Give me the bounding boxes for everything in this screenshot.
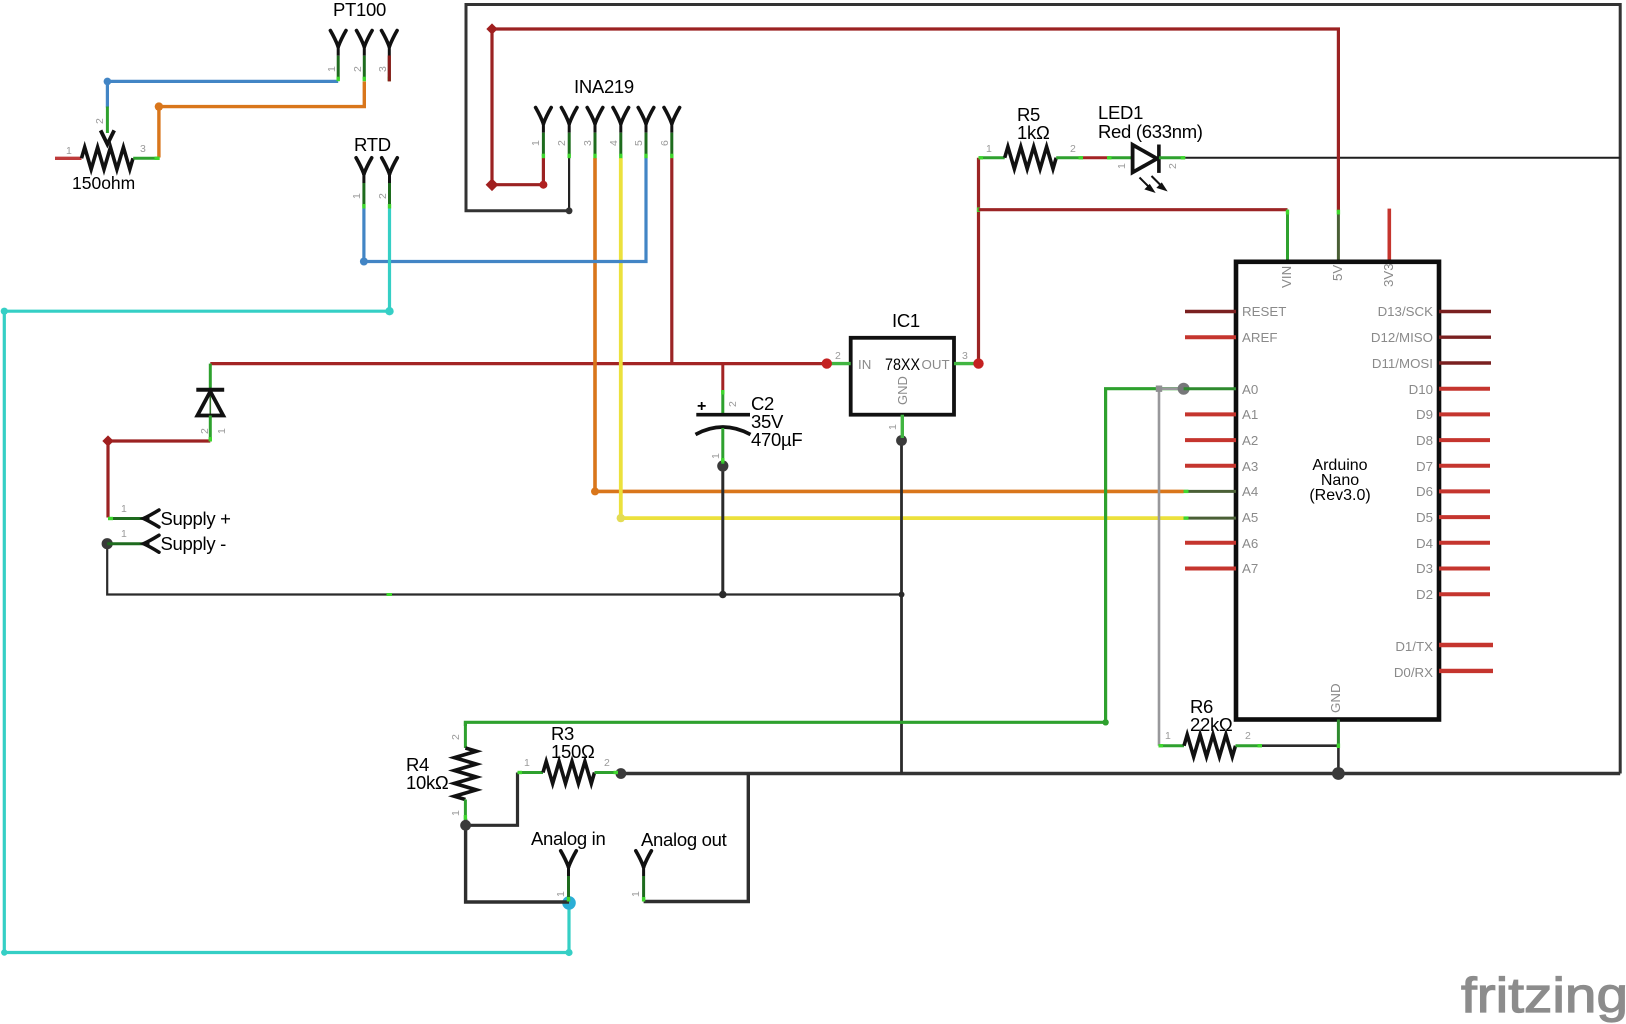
svg-text:D10: D10 — [1409, 382, 1433, 397]
junction dot at R4 pin1 — [460, 820, 471, 831]
A3 stub — [1185, 464, 1236, 468]
wire: red rail from diode cathode to IC1 IN — [210, 362, 827, 365]
svg-text:1: 1 — [1116, 163, 1128, 169]
svg-text:D5: D5 — [1416, 510, 1433, 525]
A7 stub — [1185, 567, 1236, 571]
wire: green long net R4 pin2 to A0 — [465, 389, 1183, 726]
svg-text:1: 1 — [986, 143, 992, 155]
junction dot orange at pot corner — [155, 102, 163, 110]
junction dot cyan below Analog in — [565, 949, 572, 956]
svg-text:1: 1 — [1165, 730, 1171, 742]
junction at INA pin2 wire corner — [566, 207, 573, 214]
capacitor C2 — [696, 390, 803, 464]
svg-text:2: 2 — [835, 350, 841, 362]
wire: bottom ground bus from R3 pin2 to right frame — [621, 772, 1620, 776]
wire: black from R3 pin1 to R4 pin1 — [466, 773, 518, 826]
svg-text:GND: GND — [1328, 683, 1343, 713]
A4 stub — [1184, 490, 1236, 493]
RESET stub — [1185, 310, 1236, 313]
3V3 stub red — [1388, 209, 1392, 262]
svg-text:1: 1 — [524, 757, 530, 769]
wire: black from Analog out up to ground bus — [644, 774, 749, 902]
wire: red from IC1 OUT up to R5 pin1 — [977, 158, 980, 364]
svg-text:1: 1 — [121, 528, 127, 540]
svg-text:3: 3 — [377, 66, 389, 72]
wire: INA219 pin6 dark red drop to IC1 IN rail — [670, 158, 673, 364]
svg-text:INA219: INA219 — [574, 76, 634, 97]
wire: black from R6 pin2 to Arduino GND drop — [1262, 746, 1338, 774]
svg-text:OUT: OUT — [922, 357, 950, 372]
svg-text:D7: D7 — [1416, 459, 1433, 474]
resistor R4 10k — [406, 722, 476, 820]
junction dot IC1 GND pin — [896, 435, 907, 446]
svg-text:2: 2 — [604, 757, 610, 769]
5V stub — [1337, 211, 1340, 262]
svg-text:150ohm: 150ohm — [72, 173, 135, 193]
svg-text:AREF: AREF — [1242, 330, 1277, 345]
svg-text:3V3: 3V3 — [1381, 263, 1396, 287]
svg-text:5V: 5V — [1330, 265, 1345, 281]
connector Analog out — [630, 829, 727, 902]
green tick on supply bus — [387, 593, 393, 596]
svg-text:A6: A6 — [1242, 536, 1258, 551]
svg-text:2: 2 — [1070, 143, 1076, 155]
Arduino Nano module — [1236, 209, 1439, 748]
svg-text:1: 1 — [530, 140, 542, 146]
connector Supply + — [108, 503, 231, 529]
wire: red from OUT riser to Arduino VIN — [979, 208, 1288, 211]
svg-text:D13/SCK: D13/SCK — [1378, 304, 1434, 319]
svg-text:+: + — [697, 398, 706, 415]
junction dot grey square on A0 line — [1156, 386, 1162, 392]
svg-text:3: 3 — [962, 350, 968, 362]
A6 stub — [1185, 541, 1236, 545]
svg-text:2: 2 — [377, 193, 389, 199]
junction dot at R3 pin2 on bus — [616, 768, 627, 779]
wire: cyan from RTD pin2 around left edge to Analog in — [4, 209, 569, 953]
potentiometer 150ohm — [55, 107, 160, 194]
svg-text:A3: A3 — [1242, 459, 1258, 474]
svg-text:LED1: LED1 — [1098, 102, 1143, 123]
junction dot C2 pin1 — [717, 460, 728, 471]
svg-text:2: 2 — [352, 66, 364, 72]
junction dot red at IC1 OUT — [973, 358, 983, 368]
junction dot cyan left edge top — [1, 308, 8, 315]
svg-text:PT100: PT100 — [333, 0, 386, 20]
svg-text:1: 1 — [66, 145, 72, 157]
green tick at OUT riser tee — [977, 208, 980, 213]
svg-text:IN: IN — [858, 357, 871, 372]
svg-text:A1: A1 — [1242, 407, 1258, 422]
junction dot green corner — [1102, 719, 1108, 725]
wire: orange from 150ohm pin3 to PT100 pin2 — [159, 81, 364, 157]
svg-text:GND: GND — [895, 376, 910, 405]
junction dot red at INA pin1 corner — [539, 181, 547, 189]
svg-text:2: 2 — [199, 428, 211, 434]
wire: red between R5 and LED1 — [1083, 156, 1107, 159]
svg-text:Red (633nm): Red (633nm) — [1098, 121, 1203, 142]
svg-text:D8: D8 — [1416, 433, 1433, 448]
wire: black outer frame from INA219 pin2 up, across top, down right side — [466, 5, 1620, 774]
svg-text:IC1: IC1 — [892, 310, 920, 331]
svg-text:Analog in: Analog in — [531, 828, 605, 849]
AREF stub — [1185, 335, 1236, 339]
svg-text:A2: A2 — [1242, 433, 1258, 448]
svg-text:D12/MISO: D12/MISO — [1371, 330, 1433, 345]
svg-text:3: 3 — [140, 143, 146, 155]
connector Analog in — [531, 828, 605, 902]
resistor R3 150ohm — [518, 723, 619, 784]
svg-text:A0: A0 — [1242, 382, 1258, 397]
wire: blue from pot wiper to PT100 pin1 — [107, 81, 338, 107]
A0 stub — [1184, 387, 1236, 390]
svg-text:3: 3 — [582, 140, 594, 146]
svg-text:1: 1 — [351, 193, 363, 199]
resistor R5 1k — [979, 104, 1084, 169]
wire: INA219 pin3 orange down and right to Arduino A4 — [595, 158, 1184, 491]
junction dot red at (492,184.7) — [486, 178, 499, 191]
svg-text:2: 2 — [1167, 163, 1179, 169]
wire: blue from RTD pin1 to INA219 pin5 — [364, 158, 646, 262]
connector INA219 — [530, 76, 680, 158]
Arduino right pin stubs — [1439, 312, 1493, 671]
voltage regulator IC1 78XX — [827, 310, 979, 438]
svg-text:2: 2 — [1245, 730, 1251, 742]
junction dot blue at pot corner — [104, 78, 112, 86]
wire: thin black from LED1 cathode to right frame — [1185, 157, 1620, 159]
junction dot cyan at RTD pin2 corner — [385, 307, 393, 315]
svg-text:D11/MOSI: D11/MOSI — [1372, 356, 1433, 371]
svg-text:(Rev3.0): (Rev3.0) — [1309, 487, 1370, 504]
svg-text:fritzing: fritzing — [1461, 969, 1626, 1023]
junction dot grey big at A0 — [1178, 383, 1190, 395]
wire: grey from A0 junction down to R6 pin1 — [1159, 389, 1184, 746]
junction dot at C2 on bus — [719, 591, 727, 599]
svg-text:A4: A4 — [1242, 484, 1258, 499]
junction dot red at diode-supply corner — [102, 435, 113, 446]
svg-text:1: 1 — [555, 891, 567, 897]
LED1 red — [1098, 102, 1203, 191]
junction dot cyan left edge bottom — [1, 949, 7, 955]
svg-text:2: 2 — [94, 118, 106, 124]
svg-text:A5: A5 — [1242, 510, 1258, 525]
A5 stub — [1184, 517, 1236, 520]
connector RTD — [351, 134, 397, 209]
wire: INA219 pin2 black drop — [568, 158, 570, 211]
svg-text:A7: A7 — [1242, 561, 1258, 576]
svg-text:Supply +: Supply + — [161, 508, 231, 529]
svg-text:1: 1 — [450, 810, 462, 816]
connector PT100 — [326, 0, 397, 81]
svg-text:78XX: 78XX — [885, 355, 920, 374]
wire: C2 positive red stub from IN rail — [721, 364, 724, 392]
wire: black from R4 pin1 down to Analog in — [466, 819, 569, 902]
svg-text:4: 4 — [608, 140, 620, 146]
svg-text:1: 1 — [216, 428, 228, 434]
svg-text:D9: D9 — [1416, 407, 1433, 422]
A2 stub — [1185, 438, 1236, 442]
svg-text:RTD: RTD — [354, 134, 391, 155]
svg-text:D3: D3 — [1416, 561, 1433, 576]
junction dot yellow at pin4 corner — [617, 514, 625, 522]
Arduino left pin stubs — [1184, 312, 1236, 569]
svg-text:D6: D6 — [1416, 484, 1433, 499]
wire: INA219 pin4 yellow down and right to Arduino A5 — [621, 158, 1184, 518]
svg-text:1: 1 — [630, 891, 642, 897]
svg-text:1: 1 — [121, 503, 127, 515]
svg-text:2: 2 — [556, 140, 568, 146]
svg-text:1: 1 — [326, 66, 338, 72]
wire: diode anode red to Supply plus — [108, 441, 210, 518]
body — [1236, 262, 1439, 720]
svg-text:D2: D2 — [1416, 587, 1433, 602]
svg-text:470µF: 470µF — [751, 429, 802, 450]
svg-text:6: 6 — [659, 140, 671, 146]
svg-text:D4: D4 — [1416, 536, 1433, 551]
svg-text:2: 2 — [450, 734, 462, 740]
svg-text:10kΩ: 10kΩ — [406, 772, 449, 793]
junction dot blue at RTD pin1 corner — [360, 258, 368, 266]
wire: C2 negative black drop to supply bus — [721, 463, 724, 595]
A1 stub — [1185, 412, 1236, 416]
svg-text:1kΩ: 1kΩ — [1017, 122, 1050, 143]
svg-text:1: 1 — [887, 424, 899, 430]
resistor R6 22k — [1159, 696, 1263, 757]
diode D1 — [196, 364, 228, 442]
junction dot red at IC1 IN — [822, 358, 832, 368]
svg-text:D1/TX: D1/TX — [1395, 639, 1433, 654]
svg-text:D0/RX: D0/RX — [1394, 665, 1433, 680]
junction dot red at (492,29) — [486, 23, 497, 34]
svg-text:VIN: VIN — [1279, 266, 1294, 288]
junction dot big at Arduino GND on bus — [1332, 767, 1345, 780]
wire: IC1 GND black drop to bottom bus — [900, 441, 903, 774]
junction dot cyan big at Analog in pin — [562, 896, 576, 910]
svg-text:5: 5 — [633, 140, 645, 146]
wire: Supply minus black to ground bus — [107, 544, 901, 595]
junction dot bus meeting point — [899, 592, 905, 598]
junction dot orange at pin3 corner — [591, 487, 599, 495]
svg-text:Supply -: Supply - — [161, 533, 227, 554]
svg-text:2: 2 — [727, 401, 739, 407]
svg-text:1: 1 — [710, 453, 722, 459]
connector Supply - — [102, 528, 227, 554]
VIN green riser — [1286, 210, 1289, 262]
svg-text:RESET: RESET — [1242, 304, 1286, 319]
svg-text:Analog out: Analog out — [641, 829, 727, 850]
wire: red net top loop from INA pin1 to 5V — [492, 29, 1338, 211]
